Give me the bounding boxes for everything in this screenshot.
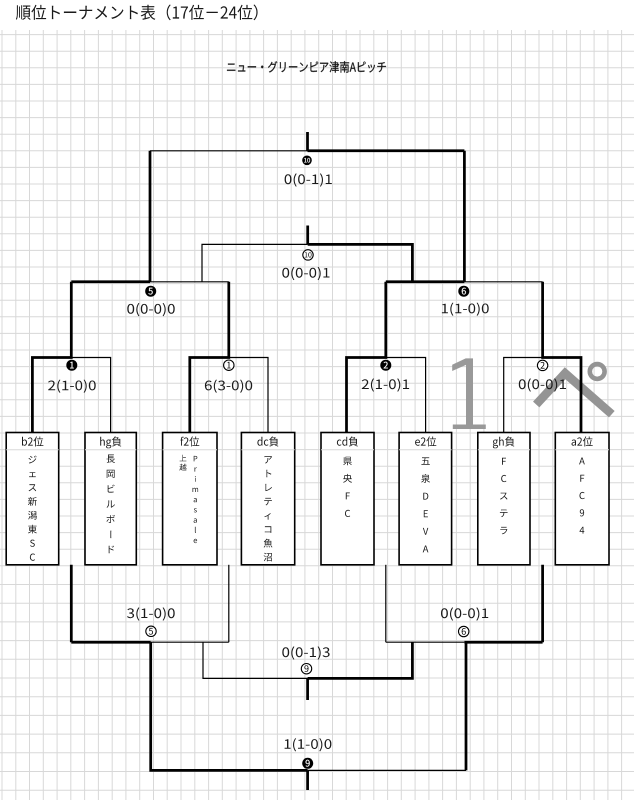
match marker 9●	[302, 758, 313, 769]
match marker 9○	[301, 664, 311, 674]
match marker 10●	[302, 156, 312, 166]
team box gh負 FCステラ	[478, 433, 530, 565]
score 2(1-0)0	[48, 380, 96, 393]
match 6 bracket (upper semi right)	[386, 281, 543, 283]
score 0(0-0)0	[127, 303, 174, 316]
match marker 10○	[303, 250, 313, 260]
seed label dc負	[257, 436, 278, 446]
loser drop wire x71	[70, 565, 73, 642]
team name FCステラ	[500, 458, 508, 535]
match 10b bracket (19th place)	[202, 226, 412, 282]
team name 県央FC	[343, 457, 352, 517]
match 9 bracket (23rd place)	[203, 642, 412, 700]
score 0(0-0)1	[441, 607, 488, 620]
score 6(3-0)0	[205, 380, 252, 393]
team box hg負 長岡ビルボード	[85, 433, 136, 565]
match 1b bracket (f2 vs dc)	[190, 282, 268, 433]
match marker 2○	[537, 360, 547, 370]
match 9b bracket (21st place)	[151, 642, 466, 790]
team box dc負 アトレティコ魚沼	[241, 433, 294, 565]
seed label gh負	[493, 436, 515, 448]
match 2b bracket (gh vs a2)	[504, 282, 581, 433]
team name AFC94	[579, 458, 585, 534]
team box a2位 AFC94	[555, 433, 609, 565]
match marker 5○	[146, 626, 156, 636]
score 0(0-0)1	[519, 378, 566, 391]
team box e2位 五泉DEVA	[399, 433, 452, 565]
match marker 5●	[145, 286, 156, 297]
seed label a2位	[572, 436, 593, 446]
team box f2位 上越Primasale	[163, 433, 217, 565]
match marker 1○	[224, 360, 234, 370]
team box b2位 ジェス新潟東SC	[6, 433, 59, 565]
match marker 1●	[66, 360, 77, 371]
match marker 2●	[380, 360, 391, 371]
team name 上越Primasale	[179, 455, 198, 543]
match 2 bracket (cd vs e2)	[347, 282, 426, 433]
match 6 winner line up	[463, 151, 466, 282]
team name 五泉DEVA	[421, 457, 430, 552]
score 0(0-1)3	[282, 646, 329, 659]
match 5 winner line up	[149, 151, 152, 282]
score 1(1-0)0	[285, 738, 332, 751]
match 6b bracket (lower right)	[386, 641, 543, 643]
score 0(0-1)1	[285, 173, 332, 186]
seed label hg負	[100, 436, 121, 448]
loser drop wire x228	[228, 565, 230, 642]
subtitle venue	[227, 61, 386, 72]
score 0(0-0)1	[282, 267, 329, 280]
seed label cd負	[337, 436, 358, 446]
seed label e2位	[415, 436, 436, 446]
loser drop wire x542	[541, 565, 544, 642]
match 5 bracket (upper semi left)	[71, 281, 229, 283]
loser drop wire x385	[385, 565, 387, 642]
match marker 6○	[459, 626, 469, 636]
score 1(1-0)0	[442, 303, 489, 316]
seed label b2位	[22, 436, 43, 446]
match 1 bracket (b2 vs hg)	[32, 282, 110, 433]
team box cd負 県央FC	[321, 433, 374, 565]
title	[16, 5, 258, 21]
score 2(1-0)1	[362, 378, 409, 391]
team name 長岡ビルボード	[106, 455, 115, 554]
team name ジェス新潟東SC	[28, 456, 37, 561]
team name アトレティコ魚沼	[264, 456, 273, 561]
score 3(1-0)0	[127, 607, 175, 620]
match 10 final bracket (17th place)	[150, 132, 464, 151]
match 5b bracket (lower left)	[71, 641, 229, 643]
match marker 6●	[458, 286, 469, 297]
page-break-preview watermark "1 pe"	[452, 358, 612, 429]
seed label f2位	[180, 436, 199, 446]
